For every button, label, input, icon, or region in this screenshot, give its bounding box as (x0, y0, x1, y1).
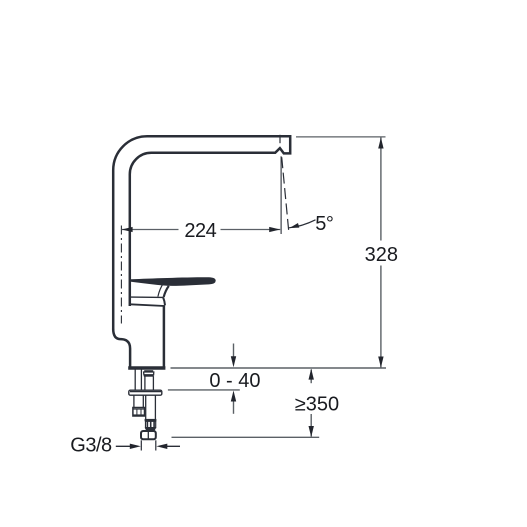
dim 328 bottom arrowhead (378, 357, 383, 368)
lever neck inner curve (158, 283, 164, 297)
dim 224 right arrowhead (269, 227, 280, 232)
dim 224 left arrowhead (122, 227, 133, 232)
G3/8 right leader arrow (163, 445, 180, 447)
spout tip axis solid line (280, 156, 282, 234)
flange reference line (168, 389, 240, 391)
check valve left walls below flange (133, 395, 135, 407)
supply pipe right wall (140, 369, 142, 390)
svg-text:G3/8: G3/8 (70, 435, 112, 457)
G3/8 extension tick left (140, 440, 142, 450)
tailpiece top dark mark (144, 370, 153, 372)
G3/8 left leader arrow (116, 445, 133, 447)
spout tip parting line (279, 135, 281, 143)
counter reference line (171, 367, 387, 369)
svg-text:5°: 5° (315, 213, 333, 235)
supply pipe left wall (134, 369, 136, 390)
tailpiece collar (144, 372, 154, 375)
dim 224 line left part (122, 229, 179, 231)
body bottom bar (128, 366, 165, 370)
5 deg leader arrow (289, 220, 316, 228)
dim 328 top arrowhead (378, 138, 383, 149)
svg-text:328: 328 (365, 244, 398, 266)
svg-text:0 - 40: 0 - 40 (209, 370, 260, 392)
thread collar dark band (145, 419, 157, 421)
dim 328 line bottom part (380, 266, 382, 368)
hose nut G3/8 (141, 431, 156, 439)
shank tube lower right wall (154, 395, 156, 419)
tilted 5 deg dashed line (282, 157, 289, 234)
dim 224 line right part (221, 229, 281, 231)
body top slanted line (130, 304, 165, 306)
svg-text:224: 224 (184, 220, 216, 242)
shank tube lower left wall (145, 395, 147, 419)
supply end reference line (172, 436, 320, 438)
check valve nut (133, 408, 145, 417)
svg-text:≥350: ≥350 (295, 394, 339, 416)
328 extension line (296, 136, 386, 138)
dim 0-40 lower arrow (233, 397, 235, 414)
dim >=350 line bottom part with arrow (310, 414, 312, 437)
column dash-dot centerline (120, 226, 122, 324)
lever blade (filled, tapered) (131, 277, 216, 286)
mounting flange (129, 390, 162, 395)
shank tube upper right wall (152, 376, 154, 390)
threaded section (146, 421, 156, 427)
dim 0-40 upper arrow (233, 344, 235, 361)
chamfer above hose nut (145, 428, 157, 431)
dim >=350 line top part with arrow (310, 370, 312, 384)
G3/8 extension tick right (155, 440, 157, 450)
lever neck outer curve (164, 286, 169, 297)
shank tube upper left wall (144, 376, 146, 390)
faucet spout tube outline (113, 136, 290, 330)
body right edge (163, 305, 166, 368)
collar right edge (163, 297, 165, 305)
faucet base S-step outline (113, 329, 130, 367)
dim 328 line top part (380, 138, 382, 241)
collar top line (131, 296, 163, 298)
